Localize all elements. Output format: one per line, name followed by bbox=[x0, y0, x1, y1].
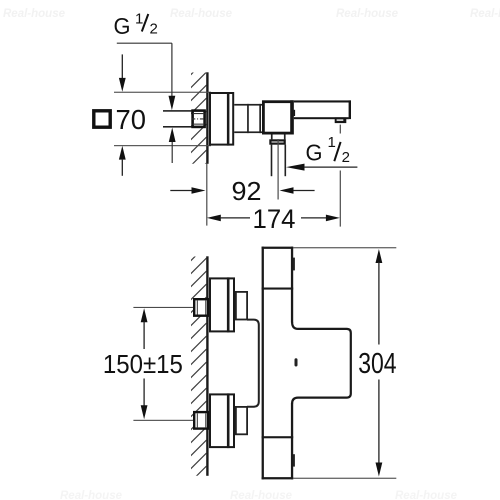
upper union axis / extension line bbox=[133, 307, 192, 308]
svg-text:2: 2 bbox=[342, 149, 350, 166]
dim 174 line and arrows bbox=[207, 215, 221, 222]
small mark on protrusion bbox=[295, 358, 298, 366]
wall face extension line continuing down (top view) bbox=[206, 164, 207, 226]
lower union axis dash-dot inside nut bbox=[193, 419, 209, 421]
escutcheon seam line bbox=[227, 92, 230, 146]
inlet pipe seam at x=260 bbox=[259, 104, 261, 133]
upper escutcheon wall plate bbox=[210, 278, 234, 331]
wall face line (bottom view) bbox=[206, 256, 208, 476]
label G1/2 (spout outlet) bbox=[306, 134, 350, 166]
wall face line (top view) bbox=[206, 72, 208, 164]
svg-text:Real-house: Real-house bbox=[336, 8, 399, 20]
leader arrow from G1/2 to outlet pipe bbox=[286, 164, 305, 171]
dim 304 extension line top bbox=[293, 247, 396, 248]
lower union nut bbox=[194, 412, 208, 429]
label G1/2 (top inlet) bbox=[114, 11, 158, 40]
extension line, escutcheon top (for square-70 dim) bbox=[114, 92, 211, 93]
svg-text:2: 2 bbox=[150, 21, 158, 38]
nut facet lines bbox=[193, 113, 205, 114]
shower outlet pipe G1/2 bbox=[271, 145, 286, 177]
inlet pipe to body (top view) bbox=[234, 104, 262, 133]
arrowhead down to nipple top bbox=[169, 96, 176, 111]
lower union step piece bbox=[236, 407, 247, 434]
svg-text:150±15: 150±15 bbox=[103, 349, 183, 379]
dim 70 upper arrow bbox=[121, 54, 123, 79]
extension line, escutcheon bottom (for square-70 dim) bbox=[114, 145, 211, 146]
leader line from G1/2 to nipple bbox=[117, 43, 172, 163]
svg-text:G: G bbox=[306, 140, 323, 166]
upper escutcheon seam bbox=[227, 277, 230, 332]
svg-text:1: 1 bbox=[328, 134, 336, 151]
body seam line lower bbox=[262, 436, 294, 438]
dim 70 lower arrow bbox=[119, 146, 126, 160]
spout bottom edge bbox=[294, 117, 349, 119]
square symbol of dim 70 bbox=[94, 111, 110, 127]
wall hatching (top view) bbox=[191, 59, 207, 179]
shower outlet nut band bbox=[270, 140, 284, 143]
svg-text:G: G bbox=[114, 13, 131, 39]
spout right end edge bbox=[349, 100, 351, 119]
lower escutcheon seam bbox=[227, 393, 230, 448]
dim 304 extension line bottom bbox=[293, 478, 396, 479]
lower union axis / extension line bbox=[133, 420, 192, 421]
upper union axis dash-dot inside nut bbox=[193, 306, 209, 308]
small bump on body right edge bbox=[294, 110, 296, 116]
svg-text:Real-house: Real-house bbox=[395, 490, 458, 500]
body outline strokes bbox=[262, 247, 294, 480]
extension line at spout outlet center bbox=[340, 125, 341, 134]
svg-text:92: 92 bbox=[232, 176, 262, 206]
dim 150±15 line and arrows bbox=[141, 308, 148, 322]
upper nut facet lines bbox=[197, 301, 198, 315]
lower nut facet lines bbox=[197, 413, 198, 427]
tick mark lower right edge bbox=[293, 454, 295, 466]
svg-text:Real-house: Real-house bbox=[60, 490, 123, 500]
svg-text:Real-house: Real-house bbox=[230, 490, 293, 500]
body seam line upper bbox=[262, 288, 294, 290]
union nut on wall nipple (top view) bbox=[193, 111, 205, 127]
svg-text:Real-house: Real-house bbox=[3, 8, 66, 20]
dim 304 line and arrows bbox=[376, 249, 383, 263]
svg-text:1: 1 bbox=[135, 11, 143, 28]
svg-text:174: 174 bbox=[253, 204, 296, 234]
svg-text:Real-house: Real-house bbox=[170, 8, 233, 20]
tick mark upper right edge bbox=[293, 258, 295, 271]
inlet pipe seam at x=248 bbox=[247, 104, 249, 133]
G1/2 wall nipple pipe stub bbox=[163, 110, 192, 128]
dim 92 right arrow bbox=[280, 187, 294, 194]
wall hatching (bottom view) bbox=[191, 245, 207, 495]
svg-text:Real-house: Real-house bbox=[470, 8, 500, 20]
escutcheon wall plate (top view, side) bbox=[210, 93, 233, 145]
body right edge extra thickness bbox=[290, 100, 294, 134]
nut axis dash-dot line bbox=[192, 118, 206, 120]
shower outlet axis line bbox=[278, 139, 279, 200]
thermostat body white fill bbox=[262, 247, 294, 480]
aerator / mousseur at spout tip bbox=[335, 117, 347, 123]
upper union nut bbox=[194, 299, 208, 316]
thermostat body block (top view) bbox=[263, 102, 292, 133]
arrowhead up to nipple bottom bbox=[169, 128, 176, 143]
cartridge housing protrusion bbox=[292, 322, 351, 404]
watermark row top bbox=[3, 8, 500, 20]
dim 92 left arrow bbox=[170, 190, 192, 192]
shower outlet stub below body bbox=[271, 134, 286, 139]
upper union step piece bbox=[236, 292, 247, 320]
spout top edge bbox=[294, 100, 351, 102]
svg-text:70: 70 bbox=[116, 104, 147, 135]
connecting bracket between unions bbox=[247, 320, 259, 407]
svg-text:304: 304 bbox=[358, 348, 397, 380]
lower escutcheon wall plate bbox=[210, 394, 234, 447]
watermark row bottom bbox=[60, 490, 458, 500]
